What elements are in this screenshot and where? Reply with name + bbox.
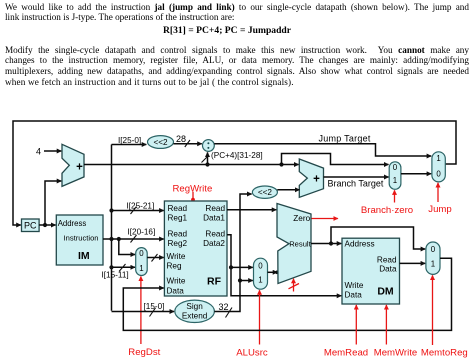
- svg-text:+: +: [76, 162, 83, 174]
- svg-text:(PC+4)[31-28]: (PC+4)[31-28]: [211, 151, 263, 160]
- wire shl26 to concat: [174, 143, 202, 145]
- svg-text:0: 0: [139, 249, 144, 258]
- slash I20-16: [131, 235, 137, 243]
- node bus I25-21: [109, 208, 113, 212]
- svg-text:RegDst: RegDst: [128, 347, 160, 358]
- svg-text:Branch Target: Branch Target: [328, 178, 384, 188]
- wire ALUsrc mux output to ALU: [275, 271, 279, 275]
- svg-text:Data: Data: [379, 265, 397, 274]
- svg-text:1: 1: [393, 176, 397, 185]
- wire Instruction out and I[20-16] to Read Reg2: [103, 238, 164, 240]
- wire PC to IM Address: [39, 224, 56, 226]
- svg-text:Data: Data: [345, 291, 363, 300]
- svg-text:Read: Read: [168, 204, 188, 213]
- svg-text:Reg1: Reg1: [168, 213, 188, 222]
- control Branch-zero: [361, 190, 413, 216]
- svg-text:I[20-16]: I[20-16]: [128, 228, 156, 237]
- svg-text:I[15-11]: I[15-11]: [102, 270, 129, 279]
- svg-text:Data2: Data2: [203, 239, 225, 248]
- mux RegDst: [136, 248, 148, 276]
- svg-text:Write: Write: [345, 281, 364, 290]
- wire ALU result to DM Address: [311, 243, 341, 245]
- wire I[20-16] to RegDst mux input 0: [119, 239, 135, 255]
- svg-text:Read: Read: [205, 204, 225, 213]
- wire RegDst mux output to Write Reg: [147, 257, 164, 259]
- wire I[25-0] to shift left 2: [112, 144, 147, 146]
- wire Read Data2 to DM Write Data: [227, 235, 341, 296]
- control RegWrite: [173, 183, 213, 201]
- node PC+4 detour junction: [279, 162, 283, 166]
- control MemWrite: [374, 305, 418, 359]
- svg-text:Write: Write: [167, 277, 186, 286]
- svg-text:0: 0: [436, 169, 441, 178]
- shifter <<2 branch: [252, 186, 277, 198]
- svg-text:1: 1: [436, 154, 440, 163]
- node PC+4 to concat branch: [205, 162, 209, 166]
- svg-text:I[25-21]: I[25-21]: [127, 201, 155, 210]
- wire sign extend to ALUsrc mux input 1: [240, 280, 253, 282]
- svg-text:Reg2: Reg2: [168, 239, 188, 248]
- sign extend unit: [175, 300, 215, 322]
- svg-text:Sign: Sign: [186, 302, 203, 311]
- wire I[15-11] to RegDst mux input 1: [112, 266, 136, 268]
- svg-text:Result: Result: [289, 240, 311, 249]
- node sign extend to ALUsrc branch: [238, 278, 242, 282]
- svg-text:Data: Data: [167, 286, 185, 295]
- adder PC+4: [62, 144, 84, 186]
- svg-text:DM: DM: [377, 285, 394, 297]
- data memory DM: [342, 238, 400, 304]
- wire PC+4 upper 4 bits to concat circle: [207, 152, 209, 164]
- svg-text:PC: PC: [24, 221, 37, 231]
- svg-text:Branch·zero: Branch·zero: [361, 205, 413, 216]
- wire branch mux output to jump mux input 0: [401, 173, 431, 175]
- svg-text:<<2: <<2: [153, 138, 168, 147]
- slash 28 bits: [185, 140, 190, 147]
- wire PC+4 detour over branch adder to branch mux input 0: [282, 154, 389, 165]
- mux jump: [432, 152, 445, 182]
- wire PC+4 (adder output): [84, 164, 299, 166]
- slash 15-0: [150, 308, 156, 317]
- svg-text:ALUsrc: ALUsrc: [236, 347, 268, 358]
- svg-text:Reg: Reg: [167, 261, 182, 270]
- mux ALUsrc: [254, 258, 268, 289]
- wire DM Read Data to MemtoReg mux input 1: [400, 262, 426, 264]
- slash 32 bits: [226, 308, 233, 318]
- svg-text:1: 1: [139, 264, 143, 273]
- wire sign extend output up to shl2: [214, 194, 251, 312]
- register PC: [22, 219, 40, 232]
- wire branch adder output to branch mux input 1: [324, 176, 389, 178]
- annotation red arrow on ALU input: [289, 279, 300, 292]
- svg-text:1: 1: [431, 260, 435, 269]
- node result junction: [329, 241, 333, 245]
- svg-text:0: 0: [393, 163, 398, 172]
- wire Read Data1 to ALU: [227, 209, 276, 211]
- wire shl2 to branch adder: [277, 189, 299, 191]
- wire I[25-21] to Read Reg1: [112, 210, 164, 212]
- svg-text:MemtoReg: MemtoReg: [421, 348, 468, 359]
- svg-text:RF: RF: [207, 275, 222, 287]
- wire Read Data2 to ALUsrc mux input 0: [231, 266, 253, 268]
- shifter <<2 jump: [148, 136, 174, 149]
- svg-text:Data1: Data1: [203, 213, 225, 222]
- svg-text:I[25-0]: I[25-0]: [118, 136, 141, 145]
- svg-text:+: +: [313, 174, 320, 186]
- svg-text:Read: Read: [377, 256, 397, 265]
- adder branch target: [299, 159, 323, 197]
- svg-text:0: 0: [258, 262, 263, 271]
- wire Jump Target to jump mux input 1: [214, 144, 431, 156]
- svg-text:<<2: <<2: [258, 188, 273, 197]
- wire MemtoReg mux output to RF Write Data: [123, 258, 451, 330]
- svg-text:32: 32: [219, 302, 229, 312]
- wire PC feedback loop (jump mux output to PC): [13, 121, 456, 225]
- mux branch: [389, 162, 401, 190]
- svg-text:Write: Write: [167, 252, 186, 261]
- concat node circle: [203, 140, 215, 152]
- svg-text:1: 1: [258, 276, 262, 285]
- svg-text:28: 28: [176, 134, 186, 144]
- svg-text:4: 4: [36, 146, 41, 156]
- control RegDst: [128, 277, 160, 359]
- slash I25-21: [131, 207, 137, 215]
- control MemRead: [324, 305, 368, 359]
- instruction memory IM: [56, 215, 103, 265]
- wire PC to adder input: [45, 181, 61, 225]
- slash I15-11: [119, 264, 126, 272]
- control ALUsrc: [236, 290, 268, 358]
- slash 4 bits on concat branch: [202, 156, 209, 163]
- svg-text:Address: Address: [58, 219, 87, 228]
- svg-text:Read: Read: [168, 230, 188, 239]
- svg-text:Extend: Extend: [182, 312, 208, 321]
- control MemtoReg: [421, 275, 468, 358]
- svg-text:Read: Read: [205, 230, 225, 239]
- wire [15-0] to sign extend: [112, 311, 175, 313]
- node PC output junction: [43, 223, 47, 227]
- node bus instruction: [109, 237, 113, 241]
- control zero output: [312, 218, 338, 220]
- svg-text:Zero: Zero: [293, 214, 310, 223]
- node Read Data2 to ALUsrc branch: [229, 265, 233, 269]
- wire result to MemtoReg mux input 0: [331, 227, 425, 249]
- control Jump: [428, 183, 451, 215]
- svg-text:0: 0: [431, 245, 436, 254]
- svg-text:MemRead: MemRead: [324, 348, 368, 359]
- svg-text:IM: IM: [78, 250, 90, 262]
- node I20-16 branch: [117, 237, 121, 241]
- mux MemtoReg: [426, 242, 440, 274]
- wire constant 4 to adder: [44, 150, 61, 152]
- svg-text:MemWrite: MemWrite: [374, 348, 418, 359]
- svg-text:Address: Address: [345, 239, 375, 248]
- register file RF: [164, 201, 227, 296]
- slash write reg: [152, 254, 158, 262]
- svg-text:Jump: Jump: [428, 204, 451, 215]
- node bus I15-11: [109, 265, 113, 269]
- wire instruction bus vertical: [111, 145, 113, 311]
- svg-text:Jump Target: Jump Target: [319, 134, 371, 144]
- svg-text:Instruction: Instruction: [64, 234, 99, 243]
- ALU: [277, 204, 312, 284]
